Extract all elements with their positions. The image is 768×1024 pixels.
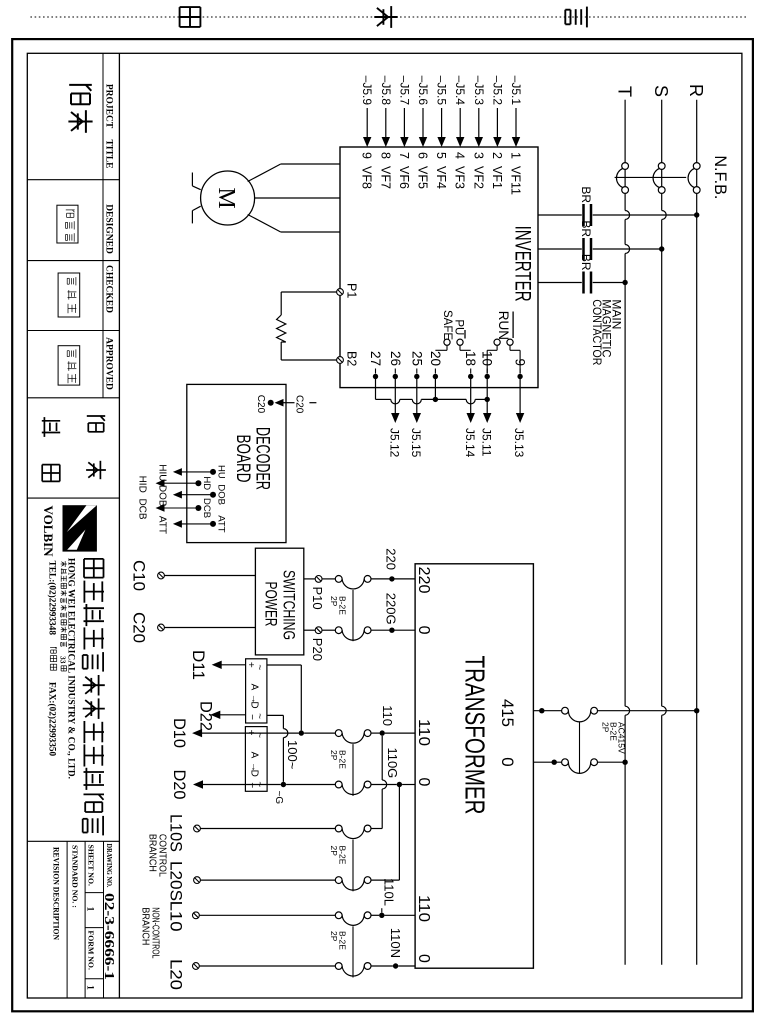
svg-text:L10: L10 xyxy=(167,901,186,932)
checker stamp box xyxy=(58,273,80,317)
svg-text:ATT: ATT xyxy=(216,515,227,532)
switch PU SAFE contacts xyxy=(457,339,463,345)
wire S feeder xyxy=(661,100,663,211)
svg-text:110: 110 xyxy=(380,705,395,726)
svg-text:SHEET NO.: SHEET NO. xyxy=(87,845,96,887)
svg-text:–J5.1: –J5.1 xyxy=(509,76,523,106)
binding mark char xian xyxy=(199,7,201,27)
node T-0 junction xyxy=(622,760,627,765)
svg-text:~G: ~G xyxy=(273,791,284,805)
svg-text:C20: C20 xyxy=(255,395,266,414)
svg-text:2P: 2P xyxy=(329,750,339,761)
motor foot left xyxy=(192,186,200,190)
breaker AC415V tie xyxy=(579,721,581,773)
node bus pin20 xyxy=(433,397,438,402)
svg-text:110L: 110L xyxy=(382,878,397,906)
svg-text:J5.15: J5.15 xyxy=(409,428,423,458)
output D22 from converter1 xyxy=(219,714,245,716)
wire 110 breaker down to converters xyxy=(304,732,335,734)
terminal C10 xyxy=(165,575,256,577)
terminal L10 xyxy=(193,912,200,919)
svg-text:–J5.4: –J5.4 xyxy=(453,76,467,106)
arrow J5.15 from pin25 xyxy=(413,413,421,423)
svg-text:–J5.5: –J5.5 xyxy=(435,76,449,106)
wire 110G down through converter2 out as D20 xyxy=(286,784,335,786)
svg-text:–J5.6: –J5.6 xyxy=(416,76,430,106)
svg-text:220G: 220G xyxy=(384,593,399,625)
svg-text:PU: PU xyxy=(453,319,465,335)
title block top line xyxy=(118,53,120,998)
binding mark char zhuang xyxy=(586,7,588,28)
motor foot right xyxy=(192,206,200,210)
breaker B-2E pole on L10S xyxy=(364,825,371,832)
node 220G xyxy=(389,628,394,633)
node 110 to converter1 junction xyxy=(299,730,304,735)
inverter block U1 xyxy=(340,147,538,388)
svg-text:18: 18 xyxy=(463,351,478,366)
svg-text:8: 8 xyxy=(378,152,392,159)
svg-text:J5.13: J5.13 xyxy=(512,428,526,458)
svg-text:DRAWING NO.: DRAWING NO. xyxy=(105,844,114,888)
svg-text:P1: P1 xyxy=(345,283,359,298)
pin B2 terminal xyxy=(337,357,344,364)
svg-text:0: 0 xyxy=(415,626,432,635)
svg-text:ATT: ATT xyxy=(157,516,168,534)
svg-text:D: D xyxy=(248,770,259,777)
svg-text:STANDARD NO. :: STANDARD NO. : xyxy=(71,845,80,908)
svg-text:DCB: DCB xyxy=(201,498,212,518)
arrow J5.12 from pin26 xyxy=(391,413,399,423)
wire pin9 out xyxy=(519,377,521,414)
company address kanji xyxy=(64,561,66,567)
wire 220G breaker to transformer xyxy=(371,629,415,631)
svg-text:2: 2 xyxy=(490,152,504,159)
svg-text:25: 25 xyxy=(409,351,424,366)
transformer block T1 xyxy=(415,564,533,968)
svg-text:2P: 2P xyxy=(329,596,339,607)
wire 110L tap down xyxy=(385,914,416,916)
wire motor lead 3 xyxy=(281,231,340,233)
wire converter1 AC feed xyxy=(267,664,301,666)
svg-text:D20: D20 xyxy=(170,770,189,800)
svg-text:HU: HU xyxy=(216,465,227,479)
svg-text:A: A xyxy=(249,684,260,691)
svg-text:VOLBIN: VOLBIN xyxy=(41,506,56,558)
arrow J5.11 from pin10 xyxy=(483,413,491,423)
breaker AC415V pole on 415 line xyxy=(591,707,598,714)
wire 220G net P20 to breaker xyxy=(322,629,335,631)
svg-text:T: T xyxy=(614,86,634,97)
converter AC-DC box 2 xyxy=(245,727,267,792)
svg-text:–J5.2: –J5.2 xyxy=(490,76,504,106)
node 110 junction xyxy=(380,730,385,735)
breaker AC415V pole on 0 line xyxy=(591,759,598,766)
svg-text:J5.11: J5.11 xyxy=(479,428,493,457)
svg-text:J5.14: J5.14 xyxy=(463,428,477,458)
svg-text:−: − xyxy=(246,714,257,720)
fields grid xyxy=(103,841,105,998)
designer stamp box xyxy=(57,205,78,243)
svg-text:PROJECT: PROJECT xyxy=(104,84,114,129)
svg-text:B2: B2 xyxy=(345,351,359,366)
svg-text:POWER: POWER xyxy=(262,582,281,627)
svg-text:0: 0 xyxy=(498,757,517,766)
svg-text:BRANCH: BRANCH xyxy=(147,834,159,872)
wire L10S down to terminal xyxy=(371,828,382,830)
node S branch junction xyxy=(659,246,664,251)
wire 110 tap to breaker xyxy=(385,732,415,734)
breaker B-2E pole on L10 xyxy=(364,912,371,919)
svg-text:1: 1 xyxy=(509,152,523,159)
svg-text:6: 6 xyxy=(416,152,430,159)
svg-text:0: 0 xyxy=(415,954,432,963)
svg-text:20: 20 xyxy=(428,351,443,366)
svg-text:2P: 2P xyxy=(601,722,611,733)
wire motor lead 1 xyxy=(281,163,340,165)
svg-text:220: 220 xyxy=(384,548,399,570)
svg-text:DESIGNED: DESIGNED xyxy=(104,204,114,254)
svg-text:HD: HD xyxy=(201,476,212,490)
svg-text:D: D xyxy=(249,701,260,708)
svg-text:1: 1 xyxy=(85,985,95,990)
svg-text:TITLE: TITLE xyxy=(104,139,114,168)
breaker B-2E pole on 220G xyxy=(364,627,371,634)
svg-text:+: + xyxy=(245,730,256,736)
breaker tie L10/L20 xyxy=(352,926,354,977)
svg-text:VF7: VF7 xyxy=(378,166,392,189)
terminal P20 xyxy=(304,629,315,631)
svg-text:27: 27 xyxy=(368,351,383,366)
decoder board block xyxy=(187,384,286,542)
svg-text:SWITCHING: SWITCHING xyxy=(280,570,299,640)
stub and label 110L xyxy=(381,908,383,912)
wire 220 net P10 to breaker xyxy=(322,578,335,580)
breaker B-2E pole on L20 xyxy=(364,963,371,970)
NFB contact T pole xyxy=(622,163,629,170)
terminal L20 xyxy=(193,963,200,970)
wire 110N tap down xyxy=(398,965,415,967)
terminal L20S xyxy=(194,877,201,884)
title block label row line xyxy=(102,53,104,398)
wire branch S to inverter with contactor gap xyxy=(593,248,662,250)
node C20 on decoder xyxy=(268,400,274,406)
signal DCB output of decoder xyxy=(195,505,201,511)
wire pin26 out xyxy=(394,377,396,414)
arrow J5.14 from pin18 xyxy=(467,413,475,423)
svg-text:VF5: VF5 xyxy=(416,166,430,189)
svg-text:110G: 110G xyxy=(385,747,400,778)
svg-text:D10: D10 xyxy=(170,718,189,748)
svg-text:VF1: VF1 xyxy=(490,166,504,189)
svg-text:110: 110 xyxy=(415,719,432,746)
svg-text:110: 110 xyxy=(415,895,432,922)
node R-415 junction xyxy=(694,708,699,713)
title block section dividers xyxy=(27,179,119,181)
terminal C20 xyxy=(165,627,256,629)
breaker tie 110/110G xyxy=(352,744,354,796)
output D11 from converter1 xyxy=(221,664,246,666)
svg-text:BOARD: BOARD xyxy=(232,435,254,483)
wire pin20 to bus xyxy=(434,377,436,400)
wire pin27 to bus xyxy=(375,377,377,400)
node on 415 stub xyxy=(539,708,544,713)
svg-text:D22: D22 xyxy=(197,701,216,731)
breaker B-2E pole on 110 xyxy=(364,730,371,737)
converter AC-DC box 1 xyxy=(246,659,267,723)
switch RUN contacts xyxy=(507,339,513,345)
node 110L xyxy=(379,913,384,918)
contactor BR contact on R branch xyxy=(590,204,593,226)
wire 0 breaker to transformer xyxy=(533,761,561,763)
svg-text:3: 3 xyxy=(471,152,485,159)
svg-text:BR: BR xyxy=(579,220,593,237)
svg-text:CONTACTOR: CONTACTOR xyxy=(590,299,602,365)
wire L20 to breaker xyxy=(371,965,393,967)
svg-text:FAX:(02)22993350: FAX:(02)22993350 xyxy=(47,682,58,757)
svg-text:CHECKED: CHECKED xyxy=(104,265,114,313)
NFB contact S pole xyxy=(658,163,665,170)
breaker B-2E pole on L20S xyxy=(364,877,371,884)
svg-text:2P: 2P xyxy=(329,931,339,942)
wire 415 breaker to transformer xyxy=(533,710,561,712)
signal HU output of decoder xyxy=(210,469,216,475)
node on 0 stub xyxy=(552,760,557,765)
svg-text:VF3: VF3 xyxy=(453,166,467,189)
svg-text:DOB: DOB xyxy=(157,485,168,507)
svg-text:DCB: DCB xyxy=(137,498,148,519)
svg-text:N.F.B.: N.F.B. xyxy=(711,155,730,199)
wire pin25 out xyxy=(416,377,418,414)
breaker tie 220/220G xyxy=(352,590,354,641)
svg-text:110N: 110N xyxy=(388,928,403,958)
svg-text:−: − xyxy=(246,782,257,788)
svg-text:BR: BR xyxy=(579,186,593,203)
svg-text:+: + xyxy=(245,662,256,668)
svg-text:7: 7 xyxy=(397,152,411,159)
pin P1 terminal xyxy=(337,289,344,296)
motor M circle xyxy=(201,171,255,225)
wire branch R to inverter with contactor gap xyxy=(593,214,697,216)
arrow J5.13 from pin9 xyxy=(516,413,524,423)
wire pin10 out xyxy=(486,377,488,414)
node T branch junction xyxy=(622,280,627,285)
wire motor lead 2 xyxy=(255,197,340,199)
svg-text:0: 0 xyxy=(415,778,432,787)
wire R feeder xyxy=(696,100,698,965)
svg-text:–J5.9: –J5.9 xyxy=(360,76,374,106)
company name kanji xyxy=(103,559,105,578)
svg-text:L20: L20 xyxy=(167,959,186,990)
wire converter1 right AC feed from G with hop xyxy=(267,714,284,716)
svg-text:M: M xyxy=(213,187,239,208)
svg-text:FORM NO.: FORM NO. xyxy=(87,931,96,970)
svg-text:P20: P20 xyxy=(310,638,325,661)
breaker B-2E pole on 110G xyxy=(364,781,371,788)
svg-text:26: 26 xyxy=(388,351,403,366)
wire L20S down to terminal xyxy=(371,879,399,881)
svg-text:4: 4 xyxy=(453,152,467,159)
signal DOB output of decoder xyxy=(210,492,216,498)
wire 415 feed up to R xyxy=(598,710,697,712)
svg-text:A: A xyxy=(248,752,259,759)
signal ATT output of decoder xyxy=(210,521,216,527)
svg-text:RUN: RUN xyxy=(496,311,511,340)
svg-text:R: R xyxy=(686,84,706,97)
node 110G to converter junction xyxy=(281,782,286,787)
svg-text:–J5.3: –J5.3 xyxy=(472,76,486,106)
svg-text:HID: HID xyxy=(137,476,148,493)
svg-text:VF11: VF11 xyxy=(509,166,523,195)
svg-text:REVISION DESCRIPTION: REVISION DESCRIPTION xyxy=(52,847,61,940)
svg-text:SAFE: SAFE xyxy=(441,310,453,340)
svg-text:C20: C20 xyxy=(130,612,149,643)
svg-text:220: 220 xyxy=(415,567,432,594)
svg-text:1: 1 xyxy=(85,907,95,912)
wire 110 into converter2 and out as D10 xyxy=(201,732,299,734)
svg-text:33: 33 xyxy=(59,656,68,664)
resistor braking between P1 and B2 xyxy=(281,291,336,293)
svg-text:100~: 100~ xyxy=(285,740,300,770)
svg-text:9: 9 xyxy=(360,152,374,159)
breaker B-2E pole on 220 xyxy=(364,576,371,583)
NFB contact R pole xyxy=(693,163,700,170)
node 110N xyxy=(393,963,398,968)
svg-text:DOB: DOB xyxy=(216,484,227,505)
svg-text:J5.12: J5.12 xyxy=(388,428,402,458)
approver stamp box xyxy=(58,346,80,385)
svg-text:TEL:(02)22993348: TEL:(02)22993348 xyxy=(47,561,58,636)
bus connecting pins 27 20 10 xyxy=(475,398,487,400)
svg-text:INVERTER: INVERTER xyxy=(511,226,536,302)
wire 110G tap to breaker xyxy=(402,784,415,786)
svg-text:02-3-6666-1: 02-3-6666-1 xyxy=(102,893,117,980)
terminal L10S xyxy=(194,825,201,832)
VOLBIN logo xyxy=(63,505,97,551)
contactor BR contact on T branch xyxy=(590,272,593,294)
issue stamp kanji fa xing yin zhang xyxy=(87,415,105,417)
svg-text:D11: D11 xyxy=(189,650,208,680)
svg-text:2P: 2P xyxy=(329,846,339,857)
svg-text:TRANSFORMER: TRANSFORMER xyxy=(460,656,491,815)
terminal P10 xyxy=(304,578,315,580)
contactor BR contact on S branch xyxy=(590,238,593,260)
switching power block xyxy=(255,548,303,655)
binding dotted line xyxy=(28,16,746,18)
svg-text:S: S xyxy=(651,85,671,97)
wire C20 into decoder with net label xyxy=(309,402,316,404)
svg-text:VF2: VF2 xyxy=(471,166,485,189)
wire L10 to breaker xyxy=(371,914,379,916)
svg-text:C20: C20 xyxy=(294,395,305,414)
signal HD output of decoder xyxy=(195,480,201,486)
svg-text:5: 5 xyxy=(434,152,448,159)
svg-text:BRANCH: BRANCH xyxy=(140,907,152,945)
svg-text:C10: C10 xyxy=(130,560,149,591)
wire T feeder xyxy=(624,100,626,211)
node R branch junction xyxy=(694,212,699,217)
node 220 xyxy=(389,576,394,581)
node bus pin10 xyxy=(485,397,490,402)
svg-text:VF8: VF8 xyxy=(360,166,374,189)
node 110G junction xyxy=(397,782,402,787)
svg-text:HONG WEI ELECTRICAL INDUSTRY &: HONG WEI ELECTRICAL INDUSTRY & CO., LTD. xyxy=(66,558,76,779)
svg-text:VF4: VF4 xyxy=(434,166,448,189)
wire pin18 out xyxy=(470,377,472,414)
svg-text:415: 415 xyxy=(498,699,517,727)
svg-text:HIU: HIU xyxy=(157,464,168,481)
svg-text:–J5.8: –J5.8 xyxy=(379,76,393,106)
project name kanji xyxy=(69,84,92,86)
svg-text:BR: BR xyxy=(579,254,593,271)
svg-text:APPROVED: APPROVED xyxy=(104,337,114,390)
wire branch T to inverter with contactor gap xyxy=(593,282,625,284)
wire 110G junction to L20S xyxy=(398,785,400,881)
wire 110 junction to L10S with hop over 110G xyxy=(381,736,383,780)
binding mark char ding xyxy=(390,6,392,28)
svg-text:P10: P10 xyxy=(310,587,325,610)
svg-text:VF6: VF6 xyxy=(397,166,411,189)
NFB tie line xyxy=(615,176,687,178)
breaker tie L10S/L20S xyxy=(352,840,354,892)
wire 0 feed up to T xyxy=(598,761,626,763)
wire 220 breaker to transformer xyxy=(371,578,415,580)
svg-text:–J5.7: –J5.7 xyxy=(397,76,411,106)
